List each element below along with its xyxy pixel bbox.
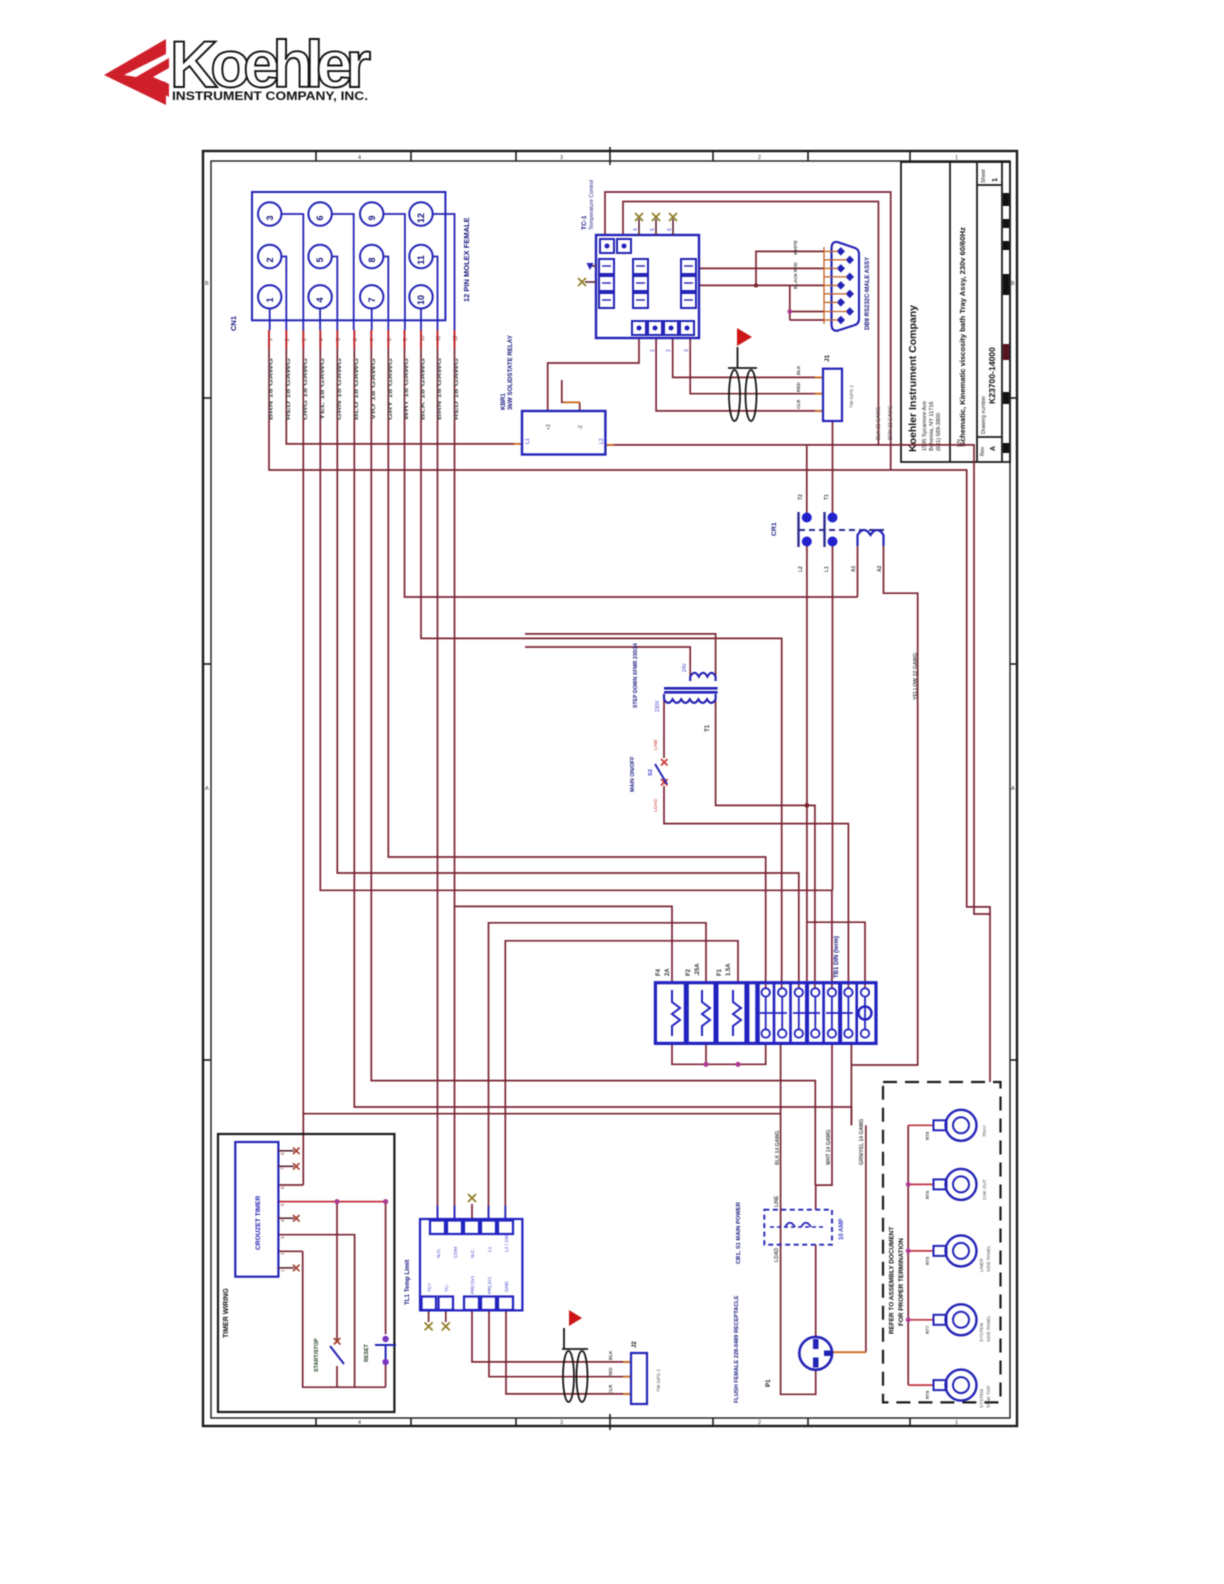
svg-text:3: 3	[560, 155, 563, 161]
svg-text:2A: 2A	[665, 968, 671, 976]
svg-text:FLUSH FEMALE 228-0489 RECEPTAC: FLUSH FEMALE 228-0489 RECEPTACLE	[734, 1295, 740, 1403]
svg-text:COM: COM	[453, 1247, 459, 1258]
svg-text:4: 4	[280, 1219, 285, 1222]
svg-text:B: B	[1011, 281, 1015, 287]
svg-text:T1: T1	[704, 724, 711, 732]
svg-text:RT5: RT5	[925, 1256, 930, 1265]
svg-text:3kW SOLIDSTATE RELAY: 3kW SOLIDSTATE RELAY	[507, 334, 514, 410]
svg-text:9: 9	[367, 215, 377, 220]
svg-text:A: A	[1011, 786, 1015, 792]
svg-text:TL1 Temp Limit: TL1 Temp Limit	[404, 1260, 411, 1305]
svg-text:CN1: CN1	[229, 316, 238, 331]
svg-text:LINE: LINE	[653, 739, 659, 750]
svg-text:RESET: RESET	[364, 1343, 370, 1362]
svg-text:TIMER WIRING: TIMER WIRING	[223, 1288, 230, 1338]
svg-text:3: 3	[560, 1420, 563, 1426]
svg-text:L1: L1	[525, 438, 531, 444]
svg-text:T1: T1	[824, 494, 830, 500]
svg-text:8: 8	[387, 338, 393, 341]
svg-text:P/N: P/N	[956, 439, 961, 447]
svg-text:5: 5	[315, 257, 325, 262]
svg-text:RED 18 GAWG: RED 18 GAWG	[454, 358, 460, 420]
svg-text:TANK TOP: TANK TOP	[986, 1386, 991, 1408]
svg-text:BLK 22 GAWG: BLK 22 GAWG	[876, 406, 882, 440]
svg-text:LOAD: LOAD	[774, 1247, 780, 1262]
svg-text:3: 3	[302, 338, 308, 341]
svg-text:GND: GND	[504, 1281, 510, 1292]
svg-text:YELLOW 22 GAWG: YELLOW 22 GAWG	[913, 653, 919, 700]
svg-text:3: 3	[265, 215, 275, 220]
svg-text:1595 Sycamore Ave: 1595 Sycamore Ave	[922, 401, 928, 451]
svg-text:J1: J1	[824, 354, 831, 362]
svg-text:BRN 18 GAWG: BRN 18 GAWG	[269, 358, 275, 420]
svg-text:L2 / 230: L2 / 230	[504, 1234, 510, 1252]
svg-text:1: 1	[265, 297, 275, 302]
svg-text:CLR: CLR	[796, 399, 801, 409]
svg-text:10: 10	[416, 295, 426, 305]
svg-text:10: 10	[420, 335, 426, 341]
svg-text:PR(+)V1: PR(+)V1	[470, 1275, 476, 1294]
svg-text:A: A	[205, 786, 209, 792]
svg-text:WHITE: WHITE	[793, 240, 798, 255]
svg-text:4: 4	[315, 297, 325, 302]
svg-text:5: 5	[336, 338, 342, 341]
svg-text:1: 1	[650, 349, 656, 352]
svg-text:B: B	[205, 281, 209, 287]
svg-text:INSTRUMENT COMPANY, INC.: INSTRUMENT COMPANY, INC.	[172, 91, 368, 103]
svg-text:11: 11	[436, 336, 442, 341]
svg-text:TB1 DIN (term): TB1 DIN (term)	[834, 936, 840, 978]
svg-text:F4: F4	[656, 968, 662, 976]
svg-text:LINE: LINE	[774, 1195, 780, 1207]
svg-text:CHK OUT: CHK OUT	[982, 1179, 987, 1200]
svg-text:BLK: BLK	[608, 1350, 613, 1360]
svg-text:RED: RED	[793, 262, 798, 272]
svg-text:REFER TO ASSEMBLY DOCUMENT: REFER TO ASSEMBLY DOCUMENT	[889, 1227, 896, 1334]
svg-text:8: 8	[367, 257, 377, 262]
svg-text:DB9 RS232C-MALE ASSY: DB9 RS232C-MALE ASSY	[865, 257, 871, 330]
svg-text:BLK: BLK	[796, 365, 801, 375]
svg-text:LOAD: LOAD	[653, 798, 659, 812]
svg-text:2: 2	[285, 338, 291, 341]
svg-text:2: 2	[758, 1420, 761, 1426]
svg-text:Rev: Rev	[980, 446, 986, 456]
svg-text:LINER: LINER	[979, 1258, 984, 1272]
svg-text:BLU 18 GAWG: BLU 18 GAWG	[354, 358, 360, 420]
svg-text:TRAY: TRAY	[982, 1125, 987, 1137]
svg-text:WHT 18 GAWG: WHT 18 GAWG	[404, 358, 410, 420]
svg-text:12: 12	[453, 335, 459, 341]
svg-text:4: 4	[358, 1420, 361, 1426]
svg-text:3: 3	[280, 1236, 285, 1239]
svg-text:24V: 24V	[682, 662, 688, 672]
svg-text:.25A: .25A	[695, 963, 701, 976]
svg-text:BRN 18 GAWG: BRN 18 GAWG	[437, 358, 443, 420]
svg-text:2: 2	[280, 1252, 285, 1255]
svg-text:1: 1	[955, 1420, 958, 1426]
svg-text:WHT 14 GAWG: WHT 14 GAWG	[826, 1129, 832, 1165]
svg-text:7: 7	[370, 338, 376, 341]
svg-text:2: 2	[758, 155, 761, 161]
svg-text:RT9: RT9	[925, 1390, 930, 1399]
svg-text:BLK 18 GAWG: BLK 18 GAWG	[421, 358, 427, 420]
svg-text:BLK 14 GAWG: BLK 14 GAWG	[775, 1130, 781, 1165]
svg-text:P1: P1	[765, 1379, 772, 1387]
svg-text:230V: 230V	[655, 700, 661, 712]
svg-text:Koehler: Koehler	[170, 27, 370, 101]
svg-text:SIDE PANEL: SIDE PANEL	[986, 1315, 991, 1342]
svg-text:STEP DOWN XFMR 230/24: STEP DOWN XFMR 230/24	[633, 643, 639, 708]
svg-text:VIO 18 GAWG: VIO 18 GAWG	[371, 358, 377, 420]
svg-text:K23700-14000: K23700-14000	[987, 347, 997, 404]
svg-text:6: 6	[353, 338, 359, 341]
svg-text:FOR PROPER TERMINATION: FOR PROPER TERMINATION	[898, 1238, 905, 1326]
svg-text:A2: A2	[877, 565, 883, 572]
svg-text:4: 4	[358, 155, 361, 161]
svg-text:2: 2	[666, 349, 672, 352]
svg-text:12: 12	[416, 213, 426, 223]
svg-text:BLACK: BLACK	[793, 272, 798, 289]
svg-text:Sheet: Sheet	[981, 169, 987, 183]
svg-text:6: 6	[315, 215, 325, 220]
svg-text:S2: S2	[648, 769, 654, 776]
svg-text:ORG 18 GAWG: ORG 18 GAWG	[303, 358, 309, 420]
svg-text:PR(-)V1: PR(-)V1	[487, 1276, 493, 1294]
svg-text:Bohemia, NY 11716: Bohemia, NY 11716	[929, 401, 935, 451]
svg-text:CROUZET TIMER: CROUZET TIMER	[255, 1196, 262, 1250]
svg-text:11: 11	[416, 255, 426, 265]
svg-text:L2: L2	[798, 566, 804, 572]
svg-text:BRN 22 GAWG: BRN 22 GAWG	[888, 405, 894, 440]
svg-text:8: 8	[280, 1152, 285, 1155]
svg-text:CLR: CLR	[608, 1384, 613, 1394]
svg-text:1.5A: 1.5A	[726, 963, 732, 976]
svg-text:J2: J2	[632, 1341, 638, 1348]
svg-text:TC-1: TC-1	[581, 215, 588, 230]
svg-text:1: 1	[990, 178, 999, 182]
svg-text:SIDE PANEL: SIDE PANEL	[986, 1245, 991, 1272]
svg-text:3: 3	[684, 349, 690, 352]
svg-text:RED 18 GAWG: RED 18 GAWG	[286, 358, 292, 420]
svg-text:1: 1	[268, 338, 274, 341]
svg-text:N.O.: N.O.	[436, 1248, 442, 1258]
svg-text:L1: L1	[824, 566, 830, 572]
svg-text:RT6: RT6	[925, 1190, 930, 1199]
svg-text:Koehler Instrument Company: Koehler Instrument Company	[907, 305, 919, 452]
svg-text:GRN/YEL 14 GAWG: GRN/YEL 14 GAWG	[859, 1119, 865, 1165]
svg-text:KBR1: KBR1	[500, 393, 507, 410]
svg-text:6: 6	[280, 1186, 285, 1189]
svg-text:GRN 18 GAWG: GRN 18 GAWG	[337, 358, 343, 420]
svg-text:9: 9	[403, 338, 409, 341]
svg-text:TC-: TC-	[444, 1284, 450, 1292]
svg-text:RT7: RT7	[925, 1325, 930, 1334]
svg-text:START/STOP: START/STOP	[314, 1338, 320, 1372]
svg-text:A1: A1	[851, 565, 857, 572]
svg-text:RED: RED	[796, 382, 801, 392]
svg-text:7: 7	[280, 1167, 285, 1170]
svg-text:GRY 18 GAWG: GRY 18 GAWG	[388, 358, 394, 420]
svg-text:CB1, S1 MAIN POWER: CB1, S1 MAIN POWER	[736, 1201, 742, 1264]
svg-text:N.C.: N.C.	[470, 1248, 476, 1258]
svg-text:6: 6	[667, 228, 673, 231]
svg-text:F2: F2	[686, 968, 692, 976]
svg-text:4: 4	[319, 338, 325, 341]
svg-text:SYSTEM: SYSTEM	[979, 1389, 984, 1408]
svg-text:-2: -2	[578, 425, 584, 430]
svg-text:5: 5	[650, 228, 656, 231]
svg-text:L2: L2	[599, 438, 605, 444]
svg-text:TW GPS 2: TW GPS 2	[849, 385, 855, 408]
svg-text:10 AMP: 10 AMP	[839, 1219, 845, 1240]
svg-text:7: 7	[367, 297, 377, 302]
svg-text:MAIN ON/OFF: MAIN ON/OFF	[630, 756, 636, 792]
svg-text:2: 2	[265, 257, 275, 262]
svg-text:1: 1	[280, 1269, 285, 1272]
svg-text:4: 4	[633, 228, 639, 231]
svg-text:T2: T2	[798, 494, 804, 500]
svg-text:12 PIN MOLEX FEMALE: 12 PIN MOLEX FEMALE	[462, 217, 471, 302]
svg-text:1: 1	[955, 155, 958, 161]
svg-text:RT8: RT8	[925, 1131, 930, 1140]
svg-text:SYSTEM: SYSTEM	[979, 1323, 984, 1342]
svg-text:A: A	[990, 446, 997, 451]
svg-text:F1: F1	[717, 968, 723, 976]
svg-text:YEL 18 GAWG: YEL 18 GAWG	[320, 358, 326, 420]
svg-text:TC+: TC+	[427, 1283, 433, 1292]
svg-text:TW GPS 2: TW GPS 2	[656, 1369, 662, 1392]
svg-text:+2: +2	[546, 424, 552, 430]
svg-text:5: 5	[280, 1203, 285, 1206]
svg-text:RED: RED	[608, 1367, 613, 1377]
svg-text:Temperature Control: Temperature Control	[589, 180, 595, 230]
svg-text:L1: L1	[487, 1246, 493, 1252]
svg-text:Schematic, Kinematic viscosity: Schematic, Kinematic viscosity bath Tray…	[958, 227, 967, 447]
svg-text:CR1: CR1	[771, 522, 778, 536]
